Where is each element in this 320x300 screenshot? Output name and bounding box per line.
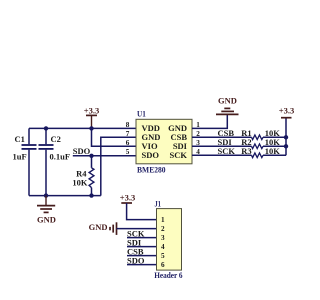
ground (right, above pin 1): [216, 96, 239, 115]
wire R1 to +3.3 rail: [263, 136, 286, 138]
ground (J1, pin 2): [89, 222, 117, 235]
junction: C2 top on VDD rail: [44, 126, 48, 130]
power +3.3 (left): [84, 106, 99, 129]
svg-text:8: 8: [126, 121, 130, 129]
svg-text:C2: C2: [51, 134, 61, 144]
svg-text:R3: R3: [241, 146, 251, 156]
svg-text:+3.3: +3.3: [84, 106, 99, 116]
svg-text:SCK: SCK: [170, 150, 188, 160]
wire SDO (pin 5): [73, 155, 136, 157]
svg-text:10K: 10K: [72, 177, 88, 187]
svg-text:1: 1: [161, 216, 165, 224]
wire SDI (pin 3): [192, 145, 252, 147]
svg-text:SDO: SDO: [127, 255, 145, 265]
wire +3.3 to VIO (pin 6): [92, 128, 137, 146]
svg-text:6: 6: [161, 261, 165, 269]
junction: R1 on +3.3 rail: [284, 135, 288, 139]
svg-text:Header 6: Header 6: [154, 270, 182, 280]
wire SDO to J1 pin 6: [127, 264, 157, 266]
svg-text:5: 5: [161, 252, 165, 260]
junction: R2 on +3.3 rail: [284, 144, 288, 148]
svg-text:U1: U1: [137, 108, 146, 118]
wire ground rail (bottom): [29, 195, 101, 197]
svg-text:0.1uF: 0.1uF: [50, 152, 71, 162]
wire SCK to J1 pin 3: [127, 237, 157, 239]
svg-text:J1: J1: [155, 199, 161, 209]
resistor R1: [241, 128, 280, 140]
svg-text:1uF: 1uF: [13, 152, 27, 162]
junction: R4 bottom on ground rail: [89, 193, 93, 197]
junction: C2 bottom on ground rail: [44, 193, 48, 197]
svg-text:7: 7: [126, 130, 130, 138]
capacitor C2: [39, 128, 71, 195]
wire pin 1 to ground (right): [192, 115, 227, 128]
op-amp U1 body (BME280): [136, 119, 192, 164]
svg-text:+3.3: +3.3: [120, 193, 135, 203]
junction: +3.3 on VDD rail: [89, 126, 93, 130]
capacitor C1: [13, 128, 37, 195]
svg-text:GND: GND: [218, 96, 237, 106]
wire R3 to +3.3 rail: [263, 154, 286, 156]
wire +3.3 rail (right): [285, 118, 287, 156]
svg-text:+3.3: +3.3: [279, 106, 294, 116]
wire ground to J1 pin 2: [117, 228, 157, 230]
svg-text:SCK: SCK: [218, 146, 236, 156]
svg-text:2: 2: [161, 225, 165, 233]
svg-text:GND: GND: [89, 222, 108, 232]
svg-text:SDO: SDO: [142, 150, 160, 160]
svg-text:BME280: BME280: [137, 165, 166, 175]
svg-text:6: 6: [126, 139, 130, 147]
wire R2 to +3.3 rail: [263, 145, 286, 147]
svg-text:GND: GND: [37, 215, 56, 225]
resistor R4: [72, 156, 94, 196]
svg-text:SDO: SDO: [73, 146, 91, 156]
ground (left): [37, 196, 56, 225]
resistor R2: [241, 137, 280, 149]
connector J1 body: [157, 209, 182, 271]
power +3.3 (right): [279, 106, 294, 118]
resistor R3: [241, 146, 280, 158]
svg-text:4: 4: [161, 243, 165, 251]
svg-text:5: 5: [126, 148, 130, 156]
wire IC GND (pin 7) to ground rail: [101, 137, 136, 195]
wire CSB (pin 2): [192, 136, 252, 138]
svg-text:3: 3: [161, 234, 165, 242]
wire CSB to J1 pin 5: [127, 255, 157, 257]
wire SCK (pin 4): [192, 154, 252, 156]
wire SDI to J1 pin 4: [127, 246, 157, 248]
junction: R4 top on SDO wire: [89, 154, 93, 158]
svg-text:C1: C1: [15, 134, 25, 144]
power +3.3 (J1): [120, 193, 135, 203]
wire VDD rail (pin 8): [29, 127, 136, 129]
wire +3.3 to J1 pin 1: [127, 203, 157, 220]
